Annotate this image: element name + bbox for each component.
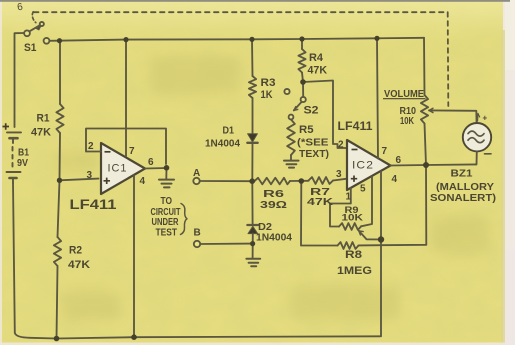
svg-text:A: A <box>193 168 200 179</box>
junction: node A at D1/D2 <box>249 178 255 184</box>
dashed gang-link line right side to R10 <box>447 12 450 106</box>
svg-text:3: 3 <box>336 169 342 180</box>
svg-text:6: 6 <box>396 155 402 166</box>
svg-text:S1: S1 <box>24 42 37 54</box>
svg-text:10K: 10K <box>342 213 364 224</box>
sounder BZ1 Mallory Sonalert <box>463 123 491 151</box>
svg-text:IC1: IC1 <box>108 163 128 175</box>
svg-text:2: 2 <box>338 140 344 151</box>
junction: top rail / R3 <box>249 37 254 42</box>
op-amp IC1 LF411 <box>101 143 145 194</box>
svg-text:1N4004: 1N4004 <box>205 138 240 150</box>
switch S1 <box>24 22 49 44</box>
svg-text:R3: R3 <box>261 77 276 89</box>
svg-text:1MEG: 1MEG <box>337 265 372 277</box>
wire R10 bottom to output node <box>425 124 427 166</box>
wire BZ1 minus to output node <box>476 151 478 164</box>
IC2 non-inverting input mark <box>351 176 357 182</box>
svg-text:BZ1: BZ1 <box>451 168 473 180</box>
wire terminal A to node A <box>200 180 252 182</box>
resistor R6 39 ohm <box>255 178 291 185</box>
wire R4 to S2 node <box>302 73 303 83</box>
wire D1 to node A <box>251 144 253 182</box>
junction: top rail / IC1 pin 7 <box>123 37 128 42</box>
ground below D2 <box>246 259 260 267</box>
svg-text:7: 7 <box>129 146 135 157</box>
junction: bottom rail / R2 <box>54 336 60 342</box>
dashed gang-link hook at S1 <box>32 12 35 23</box>
svg-text:LF411: LF411 <box>338 121 374 133</box>
svg-text:+: + <box>483 114 488 123</box>
junction: top rail / R1 <box>57 38 62 43</box>
wire D2 to ground <box>252 234 254 258</box>
svg-text:9V: 9V <box>17 157 28 169</box>
wire node A to D2 <box>251 181 253 225</box>
svg-text:S2: S2 <box>304 105 319 117</box>
wire IC1 output pin 6 <box>145 167 167 170</box>
wire R6 to R7 node <box>290 180 309 182</box>
IC2 inverting input mark <box>352 149 358 151</box>
svg-text:R1: R1 <box>37 113 50 125</box>
svg-text:4: 4 <box>392 174 398 185</box>
junction: IC2 output node <box>423 162 429 168</box>
svg-text:LF411: LF411 <box>70 196 117 212</box>
wire battery negative to bottom rail <box>13 183 15 333</box>
resistor R3 1K <box>249 76 256 98</box>
BZ1 plus arrow <box>477 114 480 122</box>
R9 wiper arrow to pin 4 line <box>359 231 381 240</box>
switch S2 <box>284 82 305 119</box>
junction: top rail / R4 <box>299 36 304 41</box>
junction: terminal B / D2 node <box>250 241 255 246</box>
resistor R5 (see text) <box>287 120 295 156</box>
wire R7 to IC2 pin 3 <box>333 179 347 181</box>
wire feedback from output node down to R8 <box>359 165 427 245</box>
terminal B <box>194 241 200 247</box>
wire R5 to ground <box>290 155 292 160</box>
junction: R1/R2 divider node <box>57 178 62 183</box>
wire top rail corner to R10 <box>423 38 426 95</box>
wire IC2 output pin 6 to BZ1 node <box>391 164 477 165</box>
BZ1 minus mark <box>485 153 492 155</box>
junction: top rail / IC2 pin 7 <box>374 36 379 41</box>
wire R8 to pin 3 node <box>301 181 338 245</box>
junction: R9 wiper on pin 4 line <box>378 236 384 242</box>
wire S1 to battery positive <box>15 33 25 127</box>
junction: R4/S2 node <box>300 79 306 85</box>
dashed gang-link line top <box>34 11 448 13</box>
ground at IC1 output (common node) <box>159 168 174 187</box>
wire IC2 pin 4 to bottom rail <box>380 171 382 336</box>
wire IC2 pin 5 to R9 <box>361 177 372 227</box>
diode D1 1N4004 <box>247 134 257 143</box>
wire IC2 pin 1 to R9 <box>330 188 351 227</box>
svg-text:R8: R8 <box>345 249 362 261</box>
resistor R2 47K <box>58 180 60 237</box>
svg-text:3: 3 <box>87 170 93 181</box>
svg-text:1: 1 <box>346 192 352 203</box>
svg-text:IC2: IC2 <box>352 160 374 172</box>
junction: bottom rail / IC1 pin 4 <box>131 334 137 340</box>
VOLUME underline <box>383 98 426 100</box>
wire top rail to R4 <box>301 39 303 49</box>
junction: node A at R8 branch <box>299 178 305 184</box>
wire IC1 pin 7 from top rail <box>125 40 127 156</box>
svg-text:1N4004: 1N4004 <box>256 232 292 244</box>
wire R4/S2 node to IC2 pin 2 <box>303 81 347 149</box>
wire IC2 pin 7 from top rail <box>377 38 378 158</box>
diode D2 1N4004 <box>247 225 258 234</box>
op-amp IC2 LF411 <box>347 140 391 190</box>
svg-text:TEXT): TEXT) <box>299 149 329 160</box>
svg-text:7: 7 <box>382 146 388 157</box>
svg-text:TO: TO <box>161 196 173 207</box>
terminal A <box>193 178 199 184</box>
svg-text:4: 4 <box>140 176 146 187</box>
svg-text:5: 5 <box>360 184 366 195</box>
svg-text:D1: D1 <box>223 126 235 137</box>
svg-text:(*SEE: (*SEE <box>297 138 329 149</box>
resistor R1 47K <box>59 41 61 104</box>
battery plus sign <box>3 123 10 129</box>
resistor R7 47K <box>309 177 334 184</box>
svg-text:B: B <box>194 228 201 239</box>
svg-text:UNDER: UNDER <box>152 217 180 228</box>
svg-text:1K: 1K <box>261 89 273 101</box>
potentiometer R10 10K VOLUME <box>421 95 428 124</box>
wire IC1 pin 2 feedback to output <box>86 129 166 165</box>
wire terminal B to D2 node <box>200 243 252 245</box>
battery B1 9V <box>7 132 22 183</box>
R10 wiper wire to BZ1 plus <box>429 108 477 123</box>
wire IC1 pin 4 to bottom rail <box>133 175 135 337</box>
svg-text:47K: 47K <box>307 196 334 208</box>
IC1 inverting input mark <box>105 151 111 153</box>
svg-text:47K: 47K <box>68 259 90 271</box>
svg-text:R4: R4 <box>309 52 324 64</box>
svg-text:SONALERT): SONALERT) <box>430 192 496 204</box>
wire R3 to D1 <box>252 98 254 134</box>
svg-text:TEST: TEST <box>156 228 178 239</box>
wire divider node to IC1 pin 3 <box>60 179 99 181</box>
svg-text:R5: R5 <box>299 124 314 136</box>
wire top supply rail <box>50 38 425 41</box>
svg-text:2: 2 <box>88 141 94 152</box>
wire bottom rail <box>15 333 380 339</box>
svg-text:47K: 47K <box>308 65 328 77</box>
wire top rail to R3 <box>251 39 254 76</box>
ground below R5 <box>284 161 299 168</box>
wire node A to R6 <box>252 180 255 182</box>
brace for test terminals <box>181 204 188 235</box>
junction: IC1 output node <box>164 165 170 171</box>
svg-text:R2: R2 <box>69 245 82 257</box>
svg-text:6: 6 <box>148 157 154 168</box>
resistor R8 1MEG <box>338 242 359 249</box>
svg-text:47K: 47K <box>31 127 51 139</box>
svg-text:39Ω: 39Ω <box>260 199 287 211</box>
trimmer R9 10K <box>339 223 361 230</box>
svg-text:10K: 10K <box>400 115 414 127</box>
resistor R4 47K <box>298 49 305 73</box>
IC1 non-inverting input mark <box>104 178 111 184</box>
